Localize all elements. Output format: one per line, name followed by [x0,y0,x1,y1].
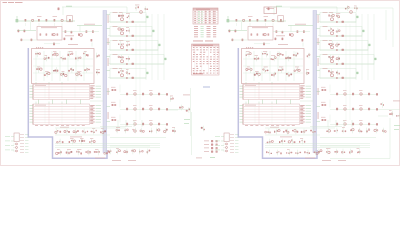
transistor driver cell Q7 B [317,100,400,111]
wire grid interconnect A [39,100,104,105]
resistor network RN2 B [265,138,370,147]
bus riser bus bar B [313,11,317,153]
wire bottom collector rail A [190,88,192,136]
node signal table T1 [193,8,218,24]
diode array D10-D15 B [265,126,342,137]
transistor driver cell Q4 B [317,54,377,65]
node net legend text [193,26,216,41]
connector J1B [215,133,239,153]
wire page border frame [1,1,400,166]
resistor mid cluster R40B [378,101,400,156]
comparator bank U8 A [110,120,205,138]
node pin mapping table T2 [192,44,220,75]
transistor driver cell Q3 B [317,40,371,51]
wire top feed net B [268,6,338,13]
node sheet title text [3,1,23,4]
transistor driver cell Q1 A [107,12,149,23]
bus main vertical bus B [238,48,317,158]
op-amp stage U7 B [266,149,320,158]
bus main vertical bus A [28,48,107,158]
op-amp IC array U3B [240,82,312,100]
op-amp relay block container U2A [32,43,101,84]
transistor driver cell Q2 B [317,26,365,37]
transistor driver cell Q8 B [317,115,378,126]
transistor driver cell Q1 B [317,12,359,23]
node bottom center labels [196,157,215,158]
transistor driver cell Q6 A [107,85,168,96]
comparator bank U8 B [320,120,400,138]
wire cell column vertical rails A [136,14,164,120]
connector J5 A [204,140,218,153]
amplifier U9 A [108,146,151,161]
transistor driver cell Q7 A [107,100,191,111]
wire top right nets [290,8,393,47]
transistor pre-driver Q0B [345,5,358,13]
op-amp IC array U3A [30,82,102,100]
op-amp input stage U1B [227,7,314,47]
wire bottom right nets [330,118,390,159]
wire grid interconnect B [249,100,314,105]
transistor driver cell Q5 B [317,68,359,79]
diode array D10-D15 A [55,126,132,137]
transistor driver cell Q6 B [317,85,378,96]
node sheet reference label [203,87,210,88]
transistor driver cell Q4 A [107,54,167,65]
transistor driver cell Q5 A [107,68,149,79]
wire top feed net A [58,6,128,13]
transistor driver cell Q8 A [107,115,168,126]
op-amp IC array U4A [30,102,102,126]
transistor pre-driver Q0A [135,5,148,14]
op-amp relay block container U2B [242,43,311,84]
op-amp input stage U1A [16,7,103,47]
connector J1A [5,133,29,153]
node bus net name text A [107,15,110,119]
bus riser bus bar A [103,11,107,153]
transistor driver cell Q2 A [107,26,155,37]
node bus net name text B [317,15,320,119]
amplifier U9 B [318,146,360,161]
op-amp IC array U4B [240,102,312,126]
wire cell column vertical rails B [346,14,374,120]
op-amp stage U7 A [56,149,111,158]
resistor network RN2 A [55,138,160,147]
transistor driver cell Q3 A [107,40,161,51]
resistor mid cluster R40A [168,95,192,156]
